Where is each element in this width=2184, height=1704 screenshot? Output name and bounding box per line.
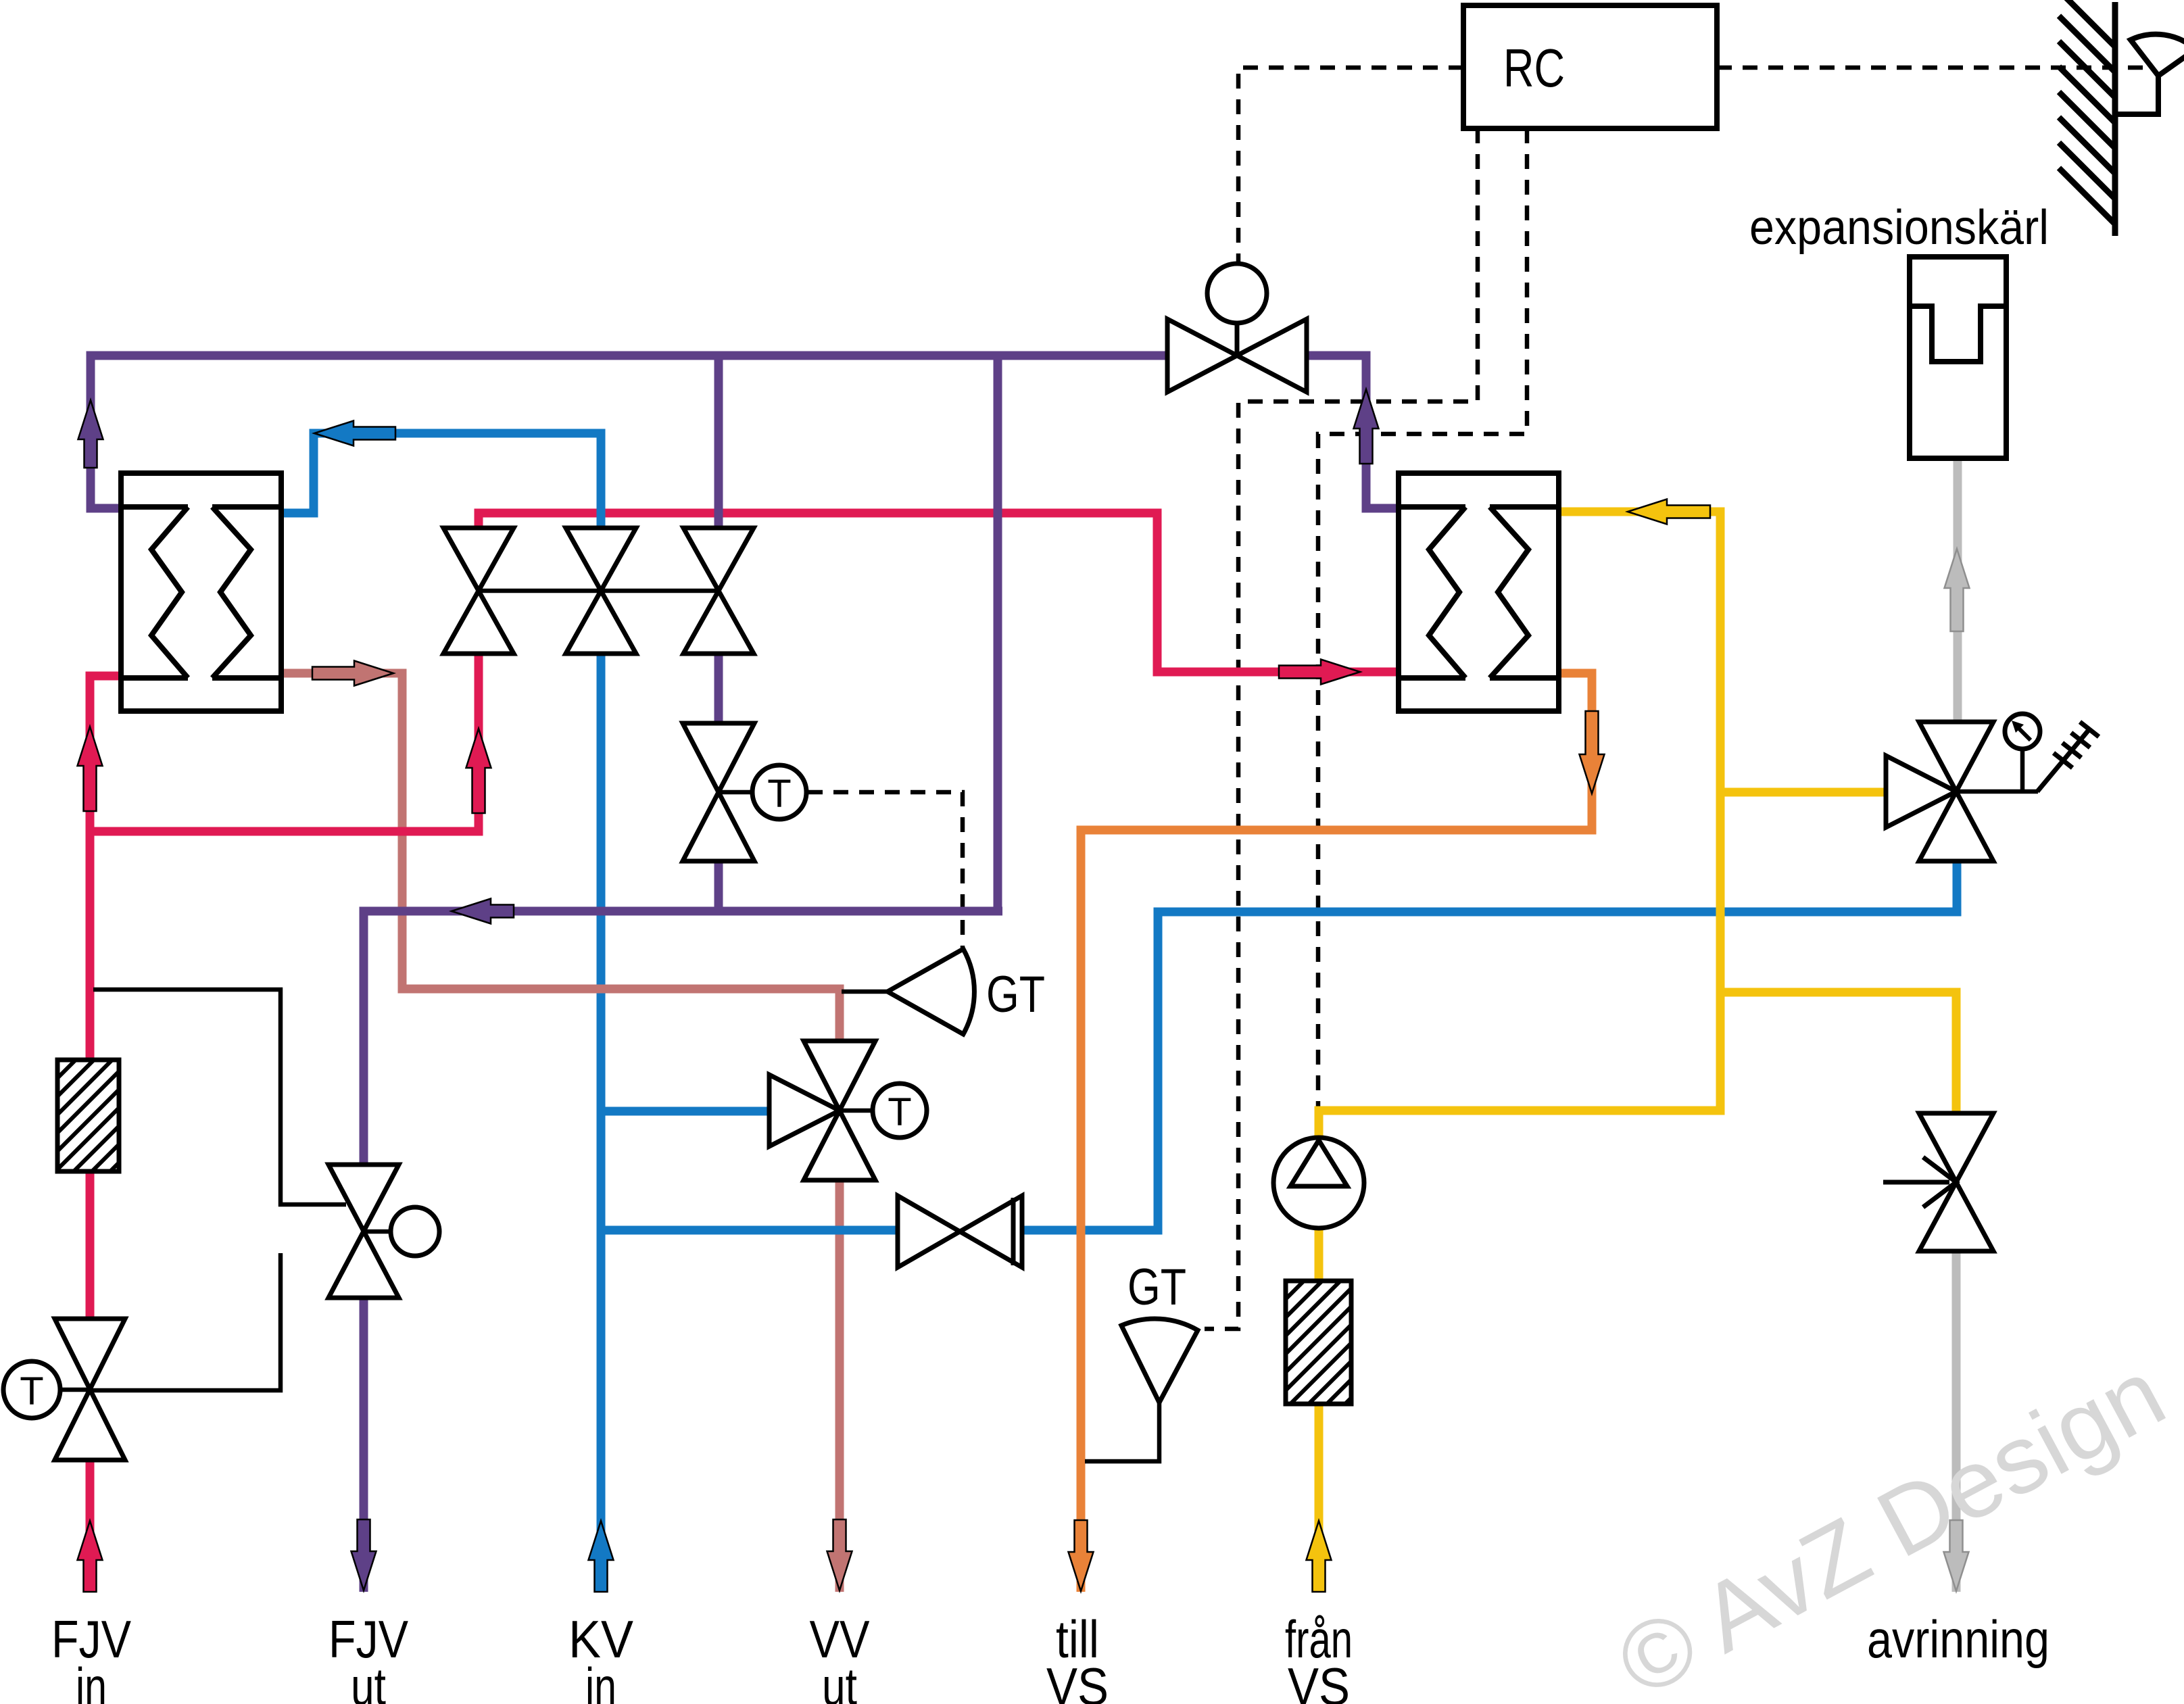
label avrinning bbox=[1867, 1609, 2049, 1669]
manifold connecting line bbox=[479, 589, 719, 593]
pipe FJV ut from small valve (purple) bbox=[714, 863, 723, 911]
label T1 bbox=[767, 772, 791, 816]
safety valve left port bbox=[1886, 756, 1956, 827]
pipe fran VS branch to safety valve (yellow) bbox=[1720, 788, 1887, 797]
check valve flow arrow bbox=[1883, 1157, 1956, 1207]
wall hatching bbox=[2059, 0, 2115, 224]
pump P1 circle bbox=[1273, 1138, 1364, 1228]
pipe FJV ut top line to HX1 (purple) bbox=[91, 356, 1167, 508]
label KV in bbox=[568, 1609, 633, 1704]
thermostatic valve TV1 circle bbox=[3, 1361, 60, 1418]
heat exchanger HX1 (tap water) bbox=[121, 473, 281, 711]
pipe KV crossing over FJV (blue) bbox=[597, 435, 606, 530]
check valve body bbox=[1919, 1113, 1993, 1251]
arrow FJV ut up to motor valve (purple) bbox=[1354, 389, 1379, 464]
label VV ut bbox=[810, 1609, 870, 1704]
label GT2 bbox=[1127, 1259, 1186, 1316]
label GT1 bbox=[986, 966, 1045, 1023]
pipe KV branch to mixing valve (blue) bbox=[601, 1107, 769, 1116]
arrow FJV ut terminal down (purple) bbox=[351, 1519, 377, 1590]
safety valve gauge needle bbox=[2012, 721, 2031, 740]
label till VS bbox=[1046, 1609, 1109, 1704]
motor valve SV1 body bbox=[1167, 319, 1307, 392]
filter F1 (FJV in) bbox=[0, 1060, 240, 1171]
svg-text:GT: GT bbox=[1127, 1259, 1186, 1316]
pipe KV branch via shutoff to safety valve (blue) bbox=[601, 862, 1957, 1230]
arrow to expansion vessel up (gray) bbox=[1945, 549, 1970, 631]
mixing valve VVB left port bbox=[769, 1075, 840, 1146]
pipe VV ut riser (brown) bbox=[835, 1178, 844, 1592]
sensor GT1 tail bbox=[842, 990, 888, 994]
label FJV ut bbox=[329, 1609, 408, 1704]
svg-text:VS: VS bbox=[1288, 1657, 1350, 1704]
label expansionskarl bbox=[1749, 201, 2049, 255]
pipe FJV branch to valve V1 (crimson) bbox=[90, 652, 479, 831]
pipe KV in riser (blue) bbox=[597, 655, 606, 1592]
svg-text:ut: ut bbox=[822, 1657, 857, 1704]
thermostatic valve TV1 stub bbox=[60, 1388, 90, 1392]
motor valve SV1 stem bbox=[1235, 323, 1240, 356]
svg-text:RC: RC bbox=[1503, 38, 1565, 98]
arrow fran VS into HX2 left (yellow) bbox=[1628, 500, 1710, 525]
arrow fran VS terminal up (yellow) bbox=[1307, 1521, 1332, 1592]
svg-text:T: T bbox=[767, 772, 791, 816]
arrow avrinning terminal down (gray) bbox=[1944, 1520, 1969, 1591]
control line RC to outdoor sensor GT-ute (dashed) bbox=[1717, 66, 2148, 70]
mixing valve VVB body bbox=[804, 1041, 875, 1180]
arrow till VS terminal down (orange) bbox=[1069, 1520, 1094, 1591]
arrow KV in terminal up (blue) bbox=[589, 1521, 614, 1592]
motor valve SV1 actuator bbox=[1207, 264, 1267, 323]
pipe FJV ut between valves (purple) bbox=[714, 652, 723, 721]
sensor GT2 funnel bbox=[1121, 1319, 1198, 1403]
pipe FJV in riser (crimson) bbox=[86, 1458, 95, 1592]
heat exchanger HX2 (heating) bbox=[1399, 473, 1559, 711]
safety valve gauge bbox=[2005, 714, 2040, 749]
safety valve stub bbox=[1956, 789, 2038, 794]
arrow FJV up to valve V1 (crimson) bbox=[466, 729, 491, 813]
thermostatic valve TV1 body bbox=[55, 1319, 125, 1460]
arrow FJV in terminal up (crimson) bbox=[78, 1521, 103, 1592]
thermometer T1 stub bbox=[719, 790, 752, 795]
label RC bbox=[1503, 38, 1565, 98]
pipe expansion vessel to safety valve (gray) bbox=[1954, 458, 1962, 724]
svg-text:VS: VS bbox=[1046, 1657, 1109, 1704]
arrow KV to HX1 left (blue) bbox=[314, 421, 395, 446]
pump P1 triangle bbox=[1290, 1140, 1347, 1186]
safety valve gauge stem bbox=[2020, 749, 2025, 792]
control line RC to motor valve SV1 (dashed) bbox=[1238, 68, 1463, 262]
svg-text:in: in bbox=[76, 1657, 107, 1704]
shutoff valve body (blue line) bbox=[898, 1196, 1022, 1267]
arrow FJV into HX2 right (crimson) bbox=[1279, 660, 1360, 685]
wall line bbox=[2112, 2, 2118, 236]
pipe FJV ut return main (purple) bbox=[364, 356, 1002, 1163]
pipe VV from HX1 (brown) bbox=[281, 673, 840, 1043]
label från VS bbox=[1285, 1609, 1353, 1704]
expansion vessel bbox=[1910, 257, 2006, 458]
pipe FJV to HX2 (crimson) bbox=[479, 513, 1399, 672]
valve V4 (purple riser) bbox=[683, 723, 754, 861]
sensor GT1 funnel bbox=[888, 949, 974, 1034]
pipe FJV ut valve V3 to top line (purple) bbox=[714, 356, 723, 530]
svg-text:expansionskärl: expansionskärl bbox=[1749, 201, 2049, 255]
pipe fran VS riser (yellow) bbox=[1315, 1230, 1324, 1592]
arrow till VS down (orange) bbox=[1580, 711, 1605, 794]
DP valve actuator bbox=[391, 1207, 439, 1256]
watermark bbox=[1601, 1339, 2181, 1704]
pipe FJV in riser to HX1 (crimson) bbox=[90, 676, 121, 1321]
mixing valve VVB stub bbox=[840, 1109, 873, 1113]
RC controller box bbox=[1463, 5, 1717, 128]
arrow FJV ut up (purple) bbox=[78, 400, 103, 468]
outdoor sensor GT-ute bbox=[2115, 34, 2184, 114]
label FJV in bbox=[51, 1609, 131, 1704]
pipe FJV ut motor valve to HX2 (purple) bbox=[1307, 356, 1399, 508]
sensor GT2 tail bbox=[1085, 1403, 1159, 1461]
label T TV1 bbox=[20, 1369, 43, 1413]
DP valve stub bbox=[364, 1230, 391, 1234]
svg-text:in: in bbox=[585, 1657, 616, 1704]
pipe KV to HX1 (blue) bbox=[281, 433, 601, 528]
control line RC to pump P1 (dashed) bbox=[1318, 128, 1527, 1117]
arrow FJV in up at HX1 (crimson) bbox=[78, 727, 103, 811]
svg-text:ut: ut bbox=[351, 1657, 386, 1704]
filter F2 (fran VS) bbox=[1163, 1281, 1486, 1404]
DP valve body bbox=[329, 1165, 399, 1298]
valve V2 (KV fill) bbox=[566, 528, 636, 654]
pipe fran VS branch to check valve (yellow) bbox=[1720, 992, 1956, 1115]
svg-text:T: T bbox=[888, 1090, 911, 1134]
thermometer T1 circle bbox=[752, 765, 806, 819]
safety valve spring bbox=[2037, 722, 2099, 792]
arrow FJV ut return left (purple) bbox=[452, 899, 514, 924]
control line thermostat T1 to sensor GT1 (dashed) bbox=[808, 792, 963, 948]
pipe FJV ut riser (purple) bbox=[360, 1300, 368, 1592]
pipe fran VS pump to HX2 (yellow) bbox=[1319, 512, 1720, 1140]
capillary sensor line upper bbox=[93, 990, 346, 1204]
label T VVB bbox=[888, 1090, 911, 1134]
capillary sensor line lower bbox=[90, 1253, 281, 1390]
shutoff valve seat bar bbox=[1011, 1198, 1016, 1265]
arrow VV ut terminal down (brown) bbox=[827, 1519, 852, 1590]
mixing valve VVB circle bbox=[873, 1084, 927, 1138]
svg-text:GT: GT bbox=[986, 966, 1045, 1023]
pipe avrinning riser (gray) bbox=[1952, 1249, 1961, 1592]
safety valve body bbox=[1919, 722, 1993, 861]
pipe KV crossing over VV (blue) bbox=[787, 1226, 898, 1235]
svg-text:avrinning: avrinning bbox=[1867, 1609, 2049, 1669]
control line RC to supply sensor GT2 (dashed) bbox=[1205, 128, 1478, 1329]
svg-text:T: T bbox=[20, 1369, 43, 1413]
valve V1 (FJV fill) bbox=[443, 528, 514, 654]
pipe till VS from HX2 (orange) bbox=[1081, 673, 1592, 1592]
valve V3 (FJV ut fill) bbox=[683, 528, 754, 654]
arrow VV from HX1 right (brown) bbox=[312, 661, 393, 686]
